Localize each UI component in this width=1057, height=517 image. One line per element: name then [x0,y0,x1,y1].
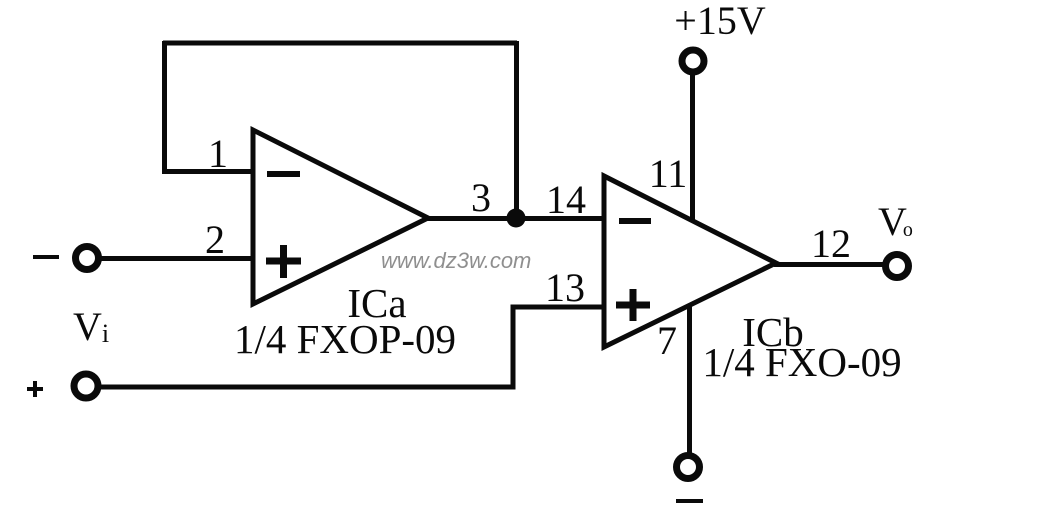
wire plus input to pin13 [100,307,604,387]
svg-text:1: 1 [208,131,228,176]
terminal negative supply circle [677,456,700,479]
wire pin1 input horizontal [162,169,253,174]
terminal input plus circle [74,374,98,398]
wire ICa output to ICb inverting input [425,216,604,221]
svg-text:2: 2 [205,217,225,262]
svg-text:+15V: +15V [674,0,766,43]
svg-text:1/4 FXO-09: 1/4 FXO-09 [702,339,901,385]
svg-text:13: 13 [545,265,585,310]
op-amp U2 inverting minus symbol [619,218,651,224]
node junction dot [507,209,526,228]
wire +15V supply vertical [690,75,695,222]
label minus at input [33,255,59,259]
op-amp U1 inverting minus symbol [267,171,300,177]
terminal +15V circle [682,50,704,72]
svg-text:www.dz3w.com: www.dz3w.com [381,248,531,273]
label minus below negative supply terminal [676,499,703,503]
op-amp U2 non-inverting plus symbol [616,289,650,321]
svg-text:3: 3 [471,175,491,220]
terminal input minus circle [76,247,99,270]
terminal output circle [886,255,909,278]
wire feedback left vertical [162,41,167,172]
wire pin7 vertical [687,304,692,453]
wire ICb output [774,262,883,267]
svg-text:12: 12 [811,221,851,266]
op-amp U1 non-inverting plus symbol [266,245,301,278]
svg-text:11: 11 [649,151,688,196]
wire pin2 input [101,256,253,261]
wire feedback top horizontal [163,41,517,46]
label plus at input [27,381,43,397]
svg-text:14: 14 [546,177,586,222]
wire feedback right vertical [514,41,519,218]
svg-text:1/4 FXOP-09: 1/4 FXOP-09 [234,316,456,362]
svg-text:7: 7 [657,318,677,363]
op-amp U2 ICb triangle [604,176,776,347]
op-amp U1 ICa triangle [253,130,428,304]
